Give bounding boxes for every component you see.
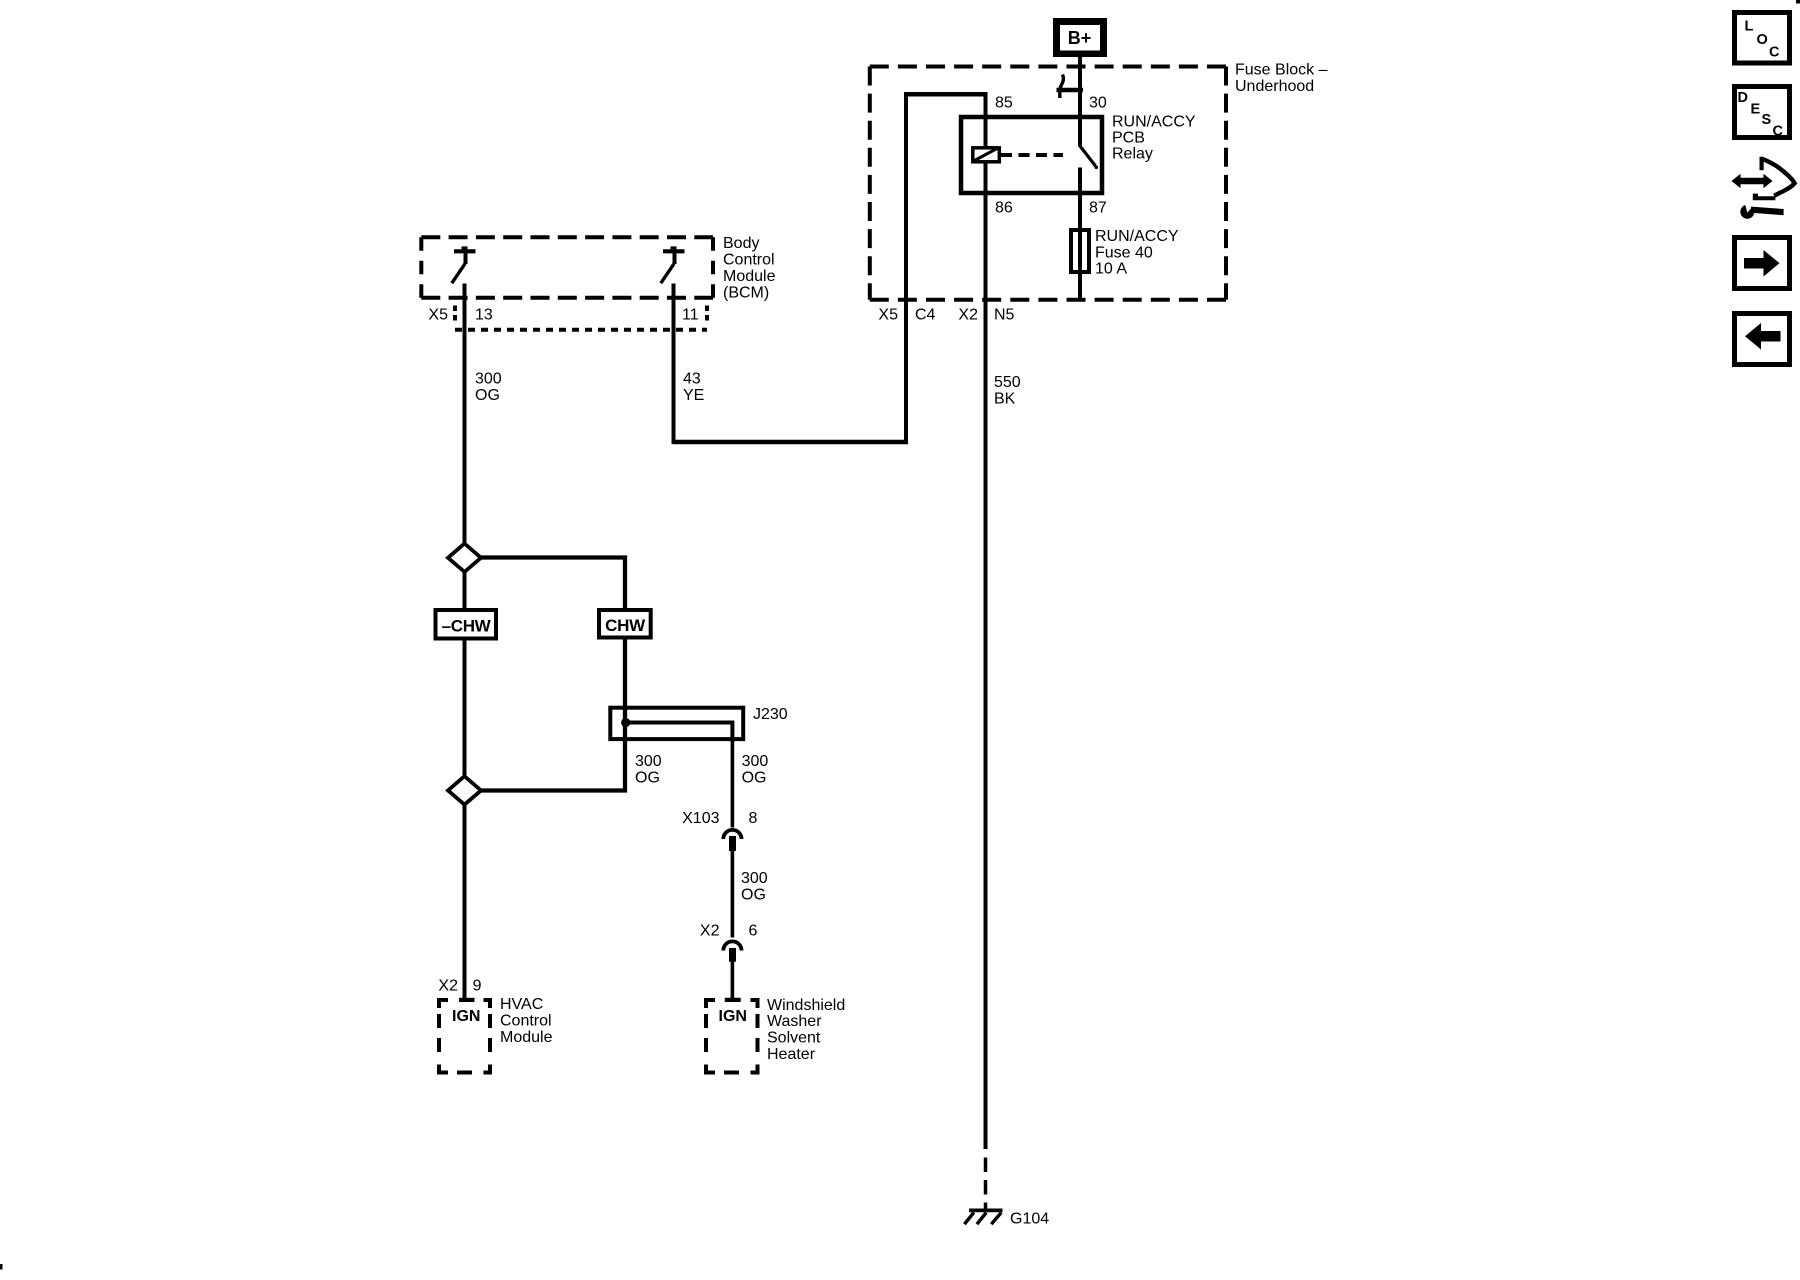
svg-text:Relay: Relay [1112,146,1153,163]
wire X2 to washer heater [731,962,735,999]
page mark bottom left [0,1264,3,1270]
svg-text:PCB: PCB [1112,130,1145,147]
svg-text:86: 86 [995,200,1013,217]
fuse block - underhood dashed box [870,67,1226,300]
wire top horizontal inside fuse block [904,92,986,97]
svg-text:E: E [1751,102,1761,118]
terminal bar at HVAC module [459,998,475,1002]
svg-text:Control: Control [500,1013,552,1030]
wire 43 YE from BCM pin 11 [672,284,676,445]
svg-text:IGN: IGN [719,1008,747,1025]
svg-text:8: 8 [749,810,758,827]
fuse RUN/ACCY Fuse 40 10A [1071,230,1089,272]
splice diamond lower [448,776,481,804]
svg-text:30: 30 [1089,95,1107,112]
relay dashed actuation line [1001,153,1063,157]
svg-text:C4: C4 [915,307,936,324]
wire splice to HVAC module [463,805,467,999]
splice diamond upper [448,544,481,572]
relay coil [973,148,1000,162]
sidebar back arrow box [1735,314,1790,365]
svg-text:Windshield: Windshield [767,997,845,1014]
svg-text:11: 11 [682,307,699,324]
wire relay pin 87 down through fuse to N5 [1078,168,1082,301]
svg-text:C: C [1773,124,1784,140]
wire B+ feed down to relay pin 30 [1078,56,1082,147]
svg-text:Fuse Block –: Fuse Block – [1235,62,1328,79]
ground G104 symbol [969,1209,1003,1213]
svg-text:S: S [1762,112,1772,128]
svg-text:Module: Module [500,1029,553,1046]
svg-text:(BCM): (BCM) [723,285,769,302]
svg-text:OG: OG [742,769,767,786]
BCM switch driver pin 11 [661,246,685,283]
wire horizontal joining 43 YE to fuse block [674,440,909,445]
svg-text:Module: Module [723,268,776,285]
wire J230 to X103 [731,741,735,828]
wire 300 OG X103 to X2 [731,851,735,938]
windshield washer solvent heater dashed box [706,1000,758,1073]
wire left vertical pin85 feed to X5 C4 [904,92,908,444]
svg-text:Underhood: Underhood [1235,78,1314,95]
sidebar LOC box [1735,13,1790,64]
svg-text:300: 300 [741,870,768,887]
wire -CHW upper segment [463,572,467,776]
svg-text:OG: OG [741,886,766,903]
svg-text:B+: B+ [1068,28,1092,48]
svg-text:X5: X5 [428,307,448,324]
svg-text:X2: X2 [700,923,720,940]
svg-text:300: 300 [742,753,769,770]
svg-text:G104: G104 [1010,1211,1049,1228]
sidebar forward arrow glyph [1744,250,1780,277]
svg-text:10 A: 10 A [1095,261,1127,278]
relay switch blade pin 30 [1080,146,1096,166]
BCM connector separator left [453,306,457,323]
body control module (BCM) dashed box [421,237,713,298]
page corner mark top right [1796,0,1800,4]
wire 550 BK dashed continuation [984,1158,988,1210]
CHW box [599,610,651,638]
inline connector X103 pin 8 [723,830,741,839]
svg-text:CHW: CHW [605,616,646,635]
BCM switch driver pin 13 [452,246,476,283]
sidebar back arrow glyph [1745,323,1781,350]
svg-text:550: 550 [994,374,1021,391]
fusible link symbol at B+ feed [1060,75,1064,99]
svg-text:O: O [1757,32,1768,48]
wire CHW through J230 down and left to splice [481,639,626,791]
svg-text:Washer: Washer [767,1013,822,1030]
svg-text:Solvent: Solvent [767,1030,821,1047]
wire 550 BK relay pin 86 to ground [984,92,988,1149]
svg-text:X2: X2 [958,307,978,324]
svg-text:RUN/ACCY: RUN/ACCY [1112,114,1196,131]
svg-text:X103: X103 [682,810,719,827]
sidebar DESC box [1735,87,1790,138]
svg-text:D: D [1738,90,1748,106]
svg-text:–CHW: –CHW [442,616,492,635]
svg-text:9: 9 [473,978,482,995]
wire splice branch to CHW [481,558,626,611]
svg-text:C: C [1769,45,1780,61]
svg-text:IGN: IGN [452,1008,480,1025]
svg-text:13: 13 [475,307,493,324]
wire 300 OG from BCM pin 13 [463,284,467,544]
svg-text:Body: Body [723,235,759,252]
svg-text:6: 6 [749,923,758,940]
J230 splice dot [621,718,630,727]
BCM connector separator right [705,306,709,323]
svg-text:RUN/ACCY: RUN/ACCY [1095,228,1179,245]
sidebar hand double-arrow icon [1732,157,1795,219]
svg-text:87: 87 [1089,200,1107,217]
sidebar forward arrow box [1735,238,1790,289]
svg-text:300: 300 [635,753,662,770]
-CHW box [436,610,497,639]
svg-text:BK: BK [994,390,1016,407]
svg-text:J230: J230 [753,706,788,723]
svg-text:OG: OG [635,769,660,786]
svg-text:Fuse 40: Fuse 40 [1095,244,1153,261]
relay RUN/ACCY PCB box [961,117,1102,193]
J230 branch inner wire [627,723,732,743]
svg-text:X2: X2 [438,978,458,995]
svg-text:43: 43 [683,371,701,388]
svg-text:YE: YE [683,387,704,404]
svg-text:N5: N5 [994,307,1015,324]
svg-text:OG: OG [475,387,500,404]
inline connector X2 pin 6 [723,941,741,950]
splice pack J230 box [610,708,743,739]
svg-text:300: 300 [475,371,502,388]
HVAC control module dashed box [439,1000,490,1073]
svg-text:HVAC: HVAC [500,996,543,1013]
svg-text:85: 85 [995,95,1013,112]
battery positive B+ box [1053,18,1107,57]
BCM connector strip dotted line [455,328,707,332]
svg-text:X5: X5 [878,307,898,324]
svg-text:Heater: Heater [767,1046,816,1063]
terminal bar at washer solvent heater [725,998,741,1002]
svg-text:L: L [1745,19,1754,35]
svg-text:Control: Control [723,252,775,269]
